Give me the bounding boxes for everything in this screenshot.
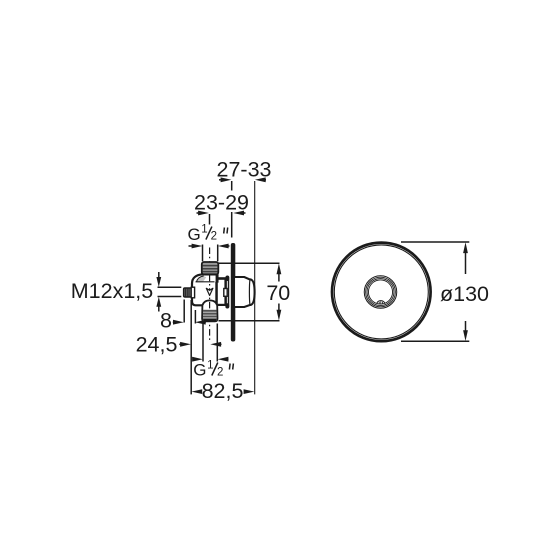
centerline (over body, under threads) bbox=[209, 248, 211, 343]
svg-text:2: 2 bbox=[217, 367, 223, 379]
dia 130 dim bbox=[401, 242, 469, 341]
svg-text:ø130: ø130 bbox=[440, 282, 489, 306]
dim 70 vertical + arrows bbox=[278, 272, 280, 313]
M12 ext lines bbox=[158, 287, 182, 296]
dim 27-33 right arrow bbox=[255, 177, 266, 182]
outer circle bbox=[332, 243, 431, 342]
svg-text:1: 1 bbox=[207, 360, 213, 372]
dim 70 bottom ext bbox=[219, 320, 280, 322]
dim 82,5 arrows bbox=[191, 389, 202, 394]
button rings bbox=[364, 276, 397, 309]
inner circle bbox=[334, 245, 428, 339]
ext line button front x=254.7 (over dome) bbox=[254, 181, 256, 394]
body bbox=[192, 274, 217, 305]
svg-text:2: 2 bbox=[211, 231, 217, 243]
ext line wall-plate back x=231.7 bbox=[231, 181, 233, 238]
svg-text:1: 1 bbox=[201, 224, 207, 236]
svg-text:M12x1,5: M12x1,5 bbox=[71, 279, 154, 303]
bottom thread stripes bbox=[203, 310, 217, 321]
svg-text:23-29: 23-29 bbox=[194, 190, 249, 214]
G1/2 top right arrow bbox=[218, 244, 229, 249]
chamfer gray shoulder bbox=[197, 276, 207, 282]
G1/2 top left arrow bbox=[192, 244, 203, 249]
svg-text:82,5: 82,5 bbox=[202, 379, 244, 403]
G1/2 top ext lines bbox=[203, 245, 218, 262]
G1/2" top text bbox=[188, 224, 228, 244]
svg-text:G: G bbox=[188, 225, 201, 244]
body right inner line bbox=[215, 282, 217, 305]
bottom bump bbox=[377, 301, 385, 304]
centerline upper ext bbox=[209, 214, 211, 225]
boss top shoulder bbox=[218, 278, 227, 280]
strip flange bbox=[226, 276, 228, 308]
dim 27-33 left arrow bbox=[219, 179, 222, 181]
strip top knob bbox=[225, 276, 229, 281]
nipple to plate bbox=[224, 289, 227, 297]
body top shoulder line bbox=[196, 281, 215, 283]
flow triangle bbox=[206, 288, 213, 295]
M12 arrows bbox=[158, 272, 160, 279]
strip bottom knob bbox=[225, 303, 229, 308]
dim 23-29 left arrow bbox=[198, 211, 209, 216]
M12 stub bbox=[184, 287, 195, 298]
dim 70 top ext bbox=[219, 262, 280, 264]
wall plate bbox=[231, 243, 236, 342]
bottom nut with arch bbox=[202, 300, 217, 321]
svg-text:27-33: 27-33 bbox=[217, 157, 272, 181]
dimension texts bbox=[71, 157, 489, 403]
G1/2" bottom text bbox=[193, 360, 233, 380]
svg-text:G: G bbox=[193, 361, 206, 380]
top nut bbox=[202, 273, 218, 282]
dim 24,5 arrows/ext bbox=[179, 343, 181, 345]
top thread block bbox=[202, 262, 219, 274]
G1/2 bottom arrows/ext bbox=[192, 357, 203, 362]
dome / push button bbox=[234, 277, 255, 307]
right boss bbox=[216, 278, 226, 305]
body bottom right shoulder bbox=[217, 304, 227, 306]
svg-text:8: 8 bbox=[160, 309, 172, 333]
chamfer inner line bbox=[196, 276, 203, 282]
svg-text:24,5: 24,5 bbox=[136, 333, 178, 357]
svg-text:70: 70 bbox=[266, 281, 290, 305]
dim 23-29 right arrow bbox=[233, 211, 244, 216]
dim 8 arrows/ext bbox=[173, 321, 175, 323]
